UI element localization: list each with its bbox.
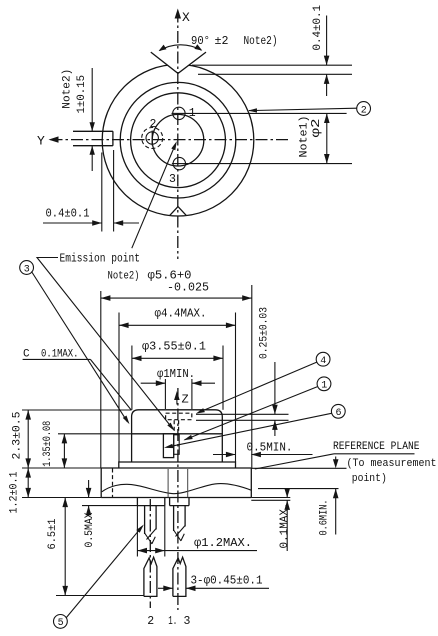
svg-text:1.2±0.1: 1.2±0.1 [9,471,21,513]
svg-text:2: 2 [147,615,154,628]
svg-text:0.6MIN.: 0.6MIN. [319,500,331,536]
svg-text:2: 2 [150,118,157,131]
dimension phi4.4MAX [119,313,236,463]
pin pitch circle [152,114,204,166]
dimension phi2 pin circle [186,113,352,163]
svg-text:φ2: φ2 [310,118,323,137]
Y axis arrowhead [49,136,59,142]
svg-text:0.4±0.1: 0.4±0.1 [46,208,90,221]
balloon 1 [317,377,331,392]
lead 2 upper [145,506,157,544]
lead end extension [56,595,144,597]
measurement point arrow [333,457,339,469]
wavy break line [102,484,252,494]
leader from balloon 2 [249,108,357,110]
arc arrow right [194,44,202,50]
cap flange [119,462,236,468]
svg-text:Z: Z [182,393,189,407]
svg-text:0.1MAX.: 0.1MAX. [279,503,291,549]
cap circle [120,82,236,198]
dimension phi1.2MAX [137,506,257,557]
svg-text:Y: Y [37,134,45,149]
svg-text:1.35±0.08: 1.35±0.08 [42,421,54,467]
reference plane extension [251,467,346,469]
svg-text:Note1): Note1) [299,116,311,158]
svg-text:0.1MAX.: 0.1MAX. [41,349,79,361]
svg-text:(To measurement: (To measurement [347,458,437,470]
dimension 1.35±0.08 [62,434,68,468]
Z axis [177,388,179,610]
window extension lines [196,413,289,415]
notch erase patch [164,51,193,75]
pin 2 [142,128,163,149]
svg-text:Emission point: Emission point [60,252,141,266]
cap body circle [131,93,226,188]
balloon 6 [331,404,345,419]
outer flange circle [102,64,254,216]
svg-text:0.5MAX: 0.5MAX [84,512,96,547]
svg-text:2: 2 [361,105,367,116]
svg-text:point): point) [352,473,387,485]
svg-text:X: X [182,10,190,25]
dimension 6.5±1 [62,498,68,596]
dimension 0.4±0.1 tab offset [43,150,139,232]
lead 1,3 lower [173,557,186,596]
dimension 0.5MAX [82,480,137,515]
dimension 0.5MIN [213,452,313,458]
lead stubs [137,498,189,506]
svg-text:-0.025: -0.025 [167,282,209,295]
submount block [163,434,173,458]
svg-text:φ3.55±0.1: φ3.55±0.1 [142,341,206,354]
svg-text:6.5±1: 6.5±1 [47,518,59,549]
leader from balloon 1 to chip [185,387,318,440]
LD chip [174,435,180,455]
burr lines [251,497,290,499]
lead 1,3 upper [174,506,186,541]
X axis [177,11,179,260]
leader emission point to top view center [132,144,176,248]
svg-text:φ1.2MAX.: φ1.2MAX. [194,537,252,550]
pin 3 [172,157,187,169]
Y axis [51,139,292,141]
dimension 0.6MIN [258,489,339,535]
balloon 3 [20,261,34,276]
balloon 4 [316,352,330,367]
tab hidden line [112,469,114,498]
dimension 1.2±0.1 [25,468,31,498]
reference plane leader [255,454,334,469]
top V-notch [151,52,206,73]
svg-text:0.25±0.03: 0.25±0.03 [259,307,271,359]
lead 1,3 feedthrough lines [167,469,169,497]
leader from balloon 3 to cap [32,272,128,422]
leader from balloon 5 to lead [66,526,142,617]
pin 1 [172,107,187,119]
dimension phi1MIN [141,379,215,409]
chamfer leader [90,359,131,410]
balloon 2 [357,102,371,117]
light path dashed [173,420,175,433]
dimension 2.3±0.5 [25,410,31,468]
lead 2 lower [144,557,157,596]
svg-text:REFERENCE PLANE: REFERENCE PLANE [333,441,420,453]
Z arrow [174,391,180,405]
svg-text:1±0.15: 1±0.15 [76,75,88,114]
svg-text:1: 1 [321,381,327,392]
leader from balloon 6 to submount [167,413,332,447]
svg-text:3: 3 [184,615,191,628]
emission point leader to chip [37,258,173,429]
lead2 centerline [149,499,151,608]
emission height extension [58,433,132,435]
dimension 0.1MAX [284,488,290,551]
dimension 0.4±0.1 notch depth (top right) [192,16,352,97]
svg-text:φ1MIN.: φ1MIN. [157,368,195,381]
bottom notch [170,207,187,216]
svg-text:C: C [23,349,30,361]
cap outline [132,410,223,462]
svg-text:5: 5 [58,618,64,629]
svg-text:Note2): Note2) [108,271,140,283]
svg-text:3: 3 [169,173,176,186]
svg-text:0.5MIN.: 0.5MIN. [247,442,293,455]
stem bottom extension [22,497,101,499]
window dashed rect [166,413,192,420]
svg-text:6: 6 [336,408,342,419]
svg-text:±2: ±2 [215,35,229,48]
svg-text:90°: 90° [191,35,210,48]
svg-text:1.: 1. [168,615,177,628]
stem [101,468,251,498]
leader from balloon 4 to window [199,362,317,412]
X axis arrowhead [175,9,181,19]
svg-text:Note2): Note2) [244,35,278,48]
post top line [132,433,223,435]
svg-text:3-φ0.45±0.1: 3-φ0.45±0.1 [191,575,263,588]
dimension phi3.55 [132,346,223,410]
svg-text:2.3±0.5: 2.3±0.5 [12,412,24,460]
dimension phi5.6 [101,285,252,468]
cap top extension [22,409,132,411]
dimension 0.25±0.03 [272,362,278,436]
svg-text:φ4.4MAX.: φ4.4MAX. [155,308,207,321]
dimension 3-phi0.45 [158,586,269,592]
stem top extension [22,467,101,469]
svg-text:4: 4 [320,356,326,367]
index tab [73,131,113,145]
svg-text:3: 3 [24,264,30,275]
svg-text:Note2): Note2) [62,69,74,109]
arc arrow left [159,45,167,51]
dimension 1±0.15 tab width [90,68,95,171]
svg-text:0.4±0.1: 0.4±0.1 [312,5,324,51]
90 degree arc [160,45,202,51]
balloon 5 [54,615,68,630]
